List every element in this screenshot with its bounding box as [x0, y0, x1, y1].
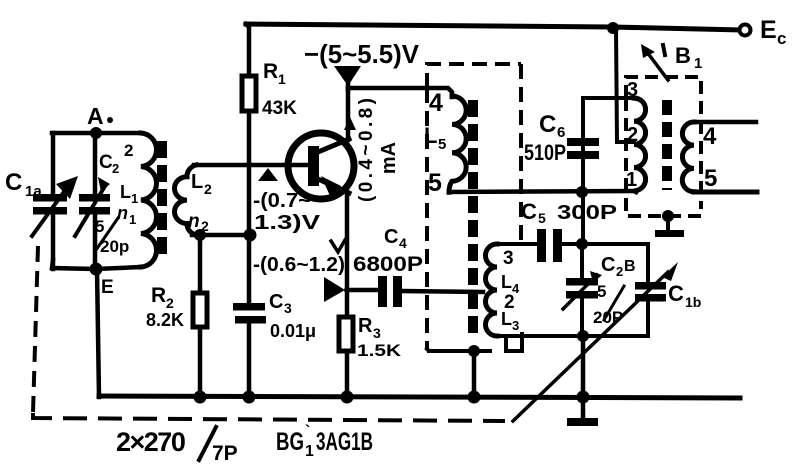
svg-text:3: 3: [503, 248, 514, 269]
node C5 junction: [576, 238, 588, 250]
wire C1a branch bottom: [51, 214, 56, 269]
svg-text:R: R: [358, 315, 373, 337]
svg-text:mA: mA: [378, 142, 400, 174]
capacitor C1b: [646, 244, 650, 282]
svg-text:1: 1: [278, 71, 286, 87]
svg-text:−(5~5.5)V: −(5~5.5)V: [304, 39, 420, 69]
wire R2 top: [198, 235, 203, 293]
node bus shield: [468, 391, 481, 404]
svg-text:-(0.7~: -(0.7~: [253, 190, 311, 212]
node bus ground branch: [577, 391, 590, 404]
svg-text:E: E: [101, 277, 114, 298]
arrow collector current: [344, 117, 356, 130]
capacitor C1a: [33, 194, 67, 202]
svg-text:1: 1: [131, 191, 138, 206]
node L2/R2: [194, 229, 206, 241]
node emitter: [344, 287, 350, 293]
wire gang diagonal to C1b: [513, 272, 668, 421]
resistor R3: [339, 317, 353, 351]
svg-text:5: 5: [95, 217, 104, 236]
node E: [90, 263, 103, 276]
wire C6 top to B1 tap3: [583, 96, 634, 100]
svg-text:1a: 1a: [25, 183, 42, 200]
svg-text:C: C: [5, 169, 22, 196]
svg-text:c: c: [777, 29, 786, 48]
wire gang dashed C1a side: [33, 246, 38, 413]
node shield ground: [468, 345, 480, 357]
wire base (L2 top to transistor): [194, 163, 308, 168]
wire L4 tap1 pigtail: [506, 334, 522, 351]
svg-text:2×270: 2×270: [116, 427, 185, 457]
wire L2 bottom: [192, 233, 250, 238]
wire ground bus: [99, 396, 740, 398]
svg-text:510P: 510P: [524, 140, 566, 165]
svg-text:4: 4: [399, 235, 407, 251]
wire collector up: [346, 88, 351, 140]
svg-text:n: n: [188, 211, 200, 232]
node B1 shield ground: [662, 210, 674, 222]
shield box B1 (dashed): [626, 77, 701, 209]
wire gang dashed bottom: [33, 413, 505, 421]
node bus C3: [243, 391, 256, 404]
svg-text:1b: 1b: [685, 294, 701, 310]
svg-text:3: 3: [627, 79, 638, 101]
arrow base voltage: [258, 168, 278, 181]
node L4 box bottom / ground branch: [577, 330, 589, 342]
svg-text:2: 2: [124, 141, 133, 160]
arrow emitter voltage: [324, 277, 345, 302]
svg-text:3AG1B: 3AG1B: [316, 428, 373, 456]
svg-text:BG: BG: [276, 428, 304, 456]
node bus R2: [194, 391, 207, 404]
wire top supply bus: [246, 24, 740, 30]
svg-text:`: `: [305, 423, 310, 440]
svg-text:5: 5: [438, 136, 446, 153]
svg-text:C: C: [521, 199, 537, 224]
svg-text:1.3)V: 1.3)V: [254, 212, 321, 234]
svg-text:6: 6: [557, 124, 565, 141]
svg-text:6800P: 6800P: [353, 253, 423, 276]
svg-text:C: C: [99, 152, 113, 173]
node bus R3: [341, 391, 354, 404]
wire C3 bottom: [247, 323, 252, 397]
wire base node down to C3: [247, 165, 252, 303]
wire L5 bottom to B1 primary: [449, 191, 636, 192]
capacitor C6: [567, 138, 599, 146]
svg-text:3: 3: [373, 325, 381, 341]
wire C1a branch top: [51, 133, 56, 196]
svg-text:1.5K: 1.5K: [357, 341, 402, 360]
ground B1: [666, 216, 670, 231]
wire emitter down: [345, 192, 350, 290]
svg-text:C: C: [668, 281, 684, 306]
core oscillator coil: [468, 100, 478, 338]
transformer B1 primary: [634, 98, 646, 192]
svg-text:A: A: [87, 103, 104, 129]
wire bus to B1 tap2: [616, 28, 634, 142]
capacitor C4: [378, 276, 387, 307]
node top bus to B1: [607, 22, 619, 34]
svg-text:4: 4: [703, 123, 717, 150]
svg-text:C: C: [539, 111, 556, 138]
svg-text:C: C: [269, 291, 283, 313]
svg-text:5: 5: [538, 210, 546, 226]
svg-text:L: L: [501, 272, 512, 292]
wire shield bottom to ground: [427, 349, 474, 351]
node C6 bottom: [576, 186, 588, 198]
capacitor C5: [537, 229, 546, 262]
resistor R1: [242, 76, 256, 111]
capacitor C3: [233, 303, 265, 311]
svg-text:8.2K: 8.2K: [146, 310, 184, 330]
svg-text:L: L: [501, 309, 512, 329]
svg-text:n: n: [117, 203, 128, 223]
wire R1 bottom to base node: [247, 111, 252, 165]
arrow B1 adjustable core: [647, 52, 668, 80]
svg-text:L: L: [120, 182, 131, 202]
wire R3 bottom: [345, 351, 350, 397]
wire R2 bottom: [198, 327, 203, 397]
core of antenna transformer: [157, 141, 167, 256]
svg-text:1: 1: [305, 443, 314, 460]
svg-text:-(0.6~1.2): -(0.6~1.2): [253, 254, 345, 276]
wire E to ground bus: [97, 269, 99, 397]
node L2/C3: [244, 229, 257, 242]
capacitor C2 trimmer: [93, 133, 98, 196]
svg-text:2: 2: [616, 264, 623, 279]
inductor L2: [175, 165, 197, 235]
inductor L5: [449, 96, 466, 192]
resistor R2: [193, 293, 207, 327]
wire B1 secondary out 4: [694, 120, 756, 125]
svg-text:4: 4: [429, 89, 443, 117]
svg-text:5: 5: [704, 165, 717, 192]
svg-text:1: 1: [694, 55, 702, 72]
svg-text:C: C: [601, 254, 615, 276]
inductor L4 L3: [486, 244, 498, 336]
svg-text:B: B: [675, 43, 691, 68]
svg-text:3: 3: [284, 300, 292, 316]
svg-text:5: 5: [597, 282, 606, 301]
svg-text:R: R: [151, 284, 166, 307]
svg-text:5: 5: [428, 169, 442, 197]
wire L4 box top: [497, 242, 537, 246]
shield box L5 (dashed): [427, 64, 521, 88]
svg-text:43K: 43K: [262, 98, 297, 119]
transformer B1 secondary: [682, 122, 694, 192]
wire C4 to L4: [402, 291, 483, 292]
svg-text:300P: 300P: [557, 202, 617, 224]
svg-text:0.01μ: 0.01μ: [270, 321, 316, 341]
wire antenna top: [52, 131, 141, 136]
wire C6 branch: [581, 98, 585, 244]
wire L4 box bottom: [497, 334, 648, 338]
capacitor C2B trimmer: [580, 244, 584, 278]
svg-text:3: 3: [512, 318, 519, 333]
inductor L1: [141, 133, 157, 267]
transistor BG1: [288, 133, 354, 199]
svg-text:E: E: [760, 16, 777, 44]
svg-text:L: L: [191, 171, 203, 193]
svg-text:2: 2: [112, 161, 119, 176]
wire B1 secondary out 5: [694, 190, 757, 195]
svg-text:1: 1: [129, 212, 136, 227]
svg-text:2: 2: [204, 181, 212, 197]
wire emitter to C4: [347, 288, 378, 293]
wire antenna bottom: [52, 260, 141, 269]
wire R3 top: [345, 290, 350, 317]
svg-text:C: C: [384, 226, 398, 248]
wire R1 top: [246, 24, 249, 76]
svg-text:7P: 7P: [212, 442, 238, 465]
terminal Ec: [740, 25, 751, 36]
svg-text:R: R: [263, 60, 278, 83]
arrow supply point: [334, 66, 361, 86]
svg-text:B: B: [624, 258, 636, 275]
svg-text:2: 2: [166, 295, 174, 311]
svg-text:20p: 20p: [100, 237, 129, 256]
svg-text:(0.4~0.8): (0.4~0.8): [356, 98, 377, 202]
svg-text:2: 2: [627, 124, 638, 146]
ground bottom: [567, 418, 598, 426]
core B1: [662, 100, 672, 190]
wire collector to L5: [348, 88, 452, 97]
